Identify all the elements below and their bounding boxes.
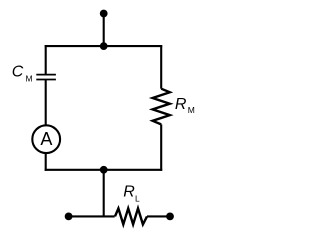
wire: top-right corner down to resistor RM: [160, 45, 162, 89]
top terminal: [100, 10, 108, 18]
wire: resistor RM to bottom wire: [160, 124, 162, 170]
svg-text:M: M: [188, 105, 195, 115]
wire: top terminal to top node: [103, 14, 105, 46]
wire: rail right segment: [147, 215, 170, 217]
node: top junction: [100, 42, 108, 50]
wire: rail left segment: [69, 215, 115, 217]
svg-text:L: L: [135, 193, 140, 203]
ammeter U1 circle: [32, 125, 60, 153]
capacitor C_M bottom plate: [36, 79, 56, 81]
terminal: rail right: [166, 213, 174, 221]
terminal: rail left: [65, 213, 73, 221]
wire: bottom horizontal: [45, 169, 163, 171]
svg-text:R: R: [175, 96, 187, 113]
wire: capacitor to ammeter: [45, 80, 47, 127]
wire: bottom node down to output rail: [103, 170, 105, 218]
wire: ammeter to bottom wire: [45, 154, 47, 171]
svg-text:A: A: [40, 129, 52, 149]
wire: top-left corner down to capacitor: [45, 45, 47, 75]
resistor R_L zigzag: [115, 208, 147, 224]
svg-text:M: M: [26, 73, 33, 83]
svg-text:C: C: [12, 64, 24, 81]
svg-text:R: R: [123, 183, 135, 200]
resistor R_M zigzag: [153, 89, 170, 125]
capacitor C_M top plate: [36, 74, 56, 76]
wire: top horizontal: [45, 45, 163, 47]
node: bottom junction: [100, 166, 108, 174]
